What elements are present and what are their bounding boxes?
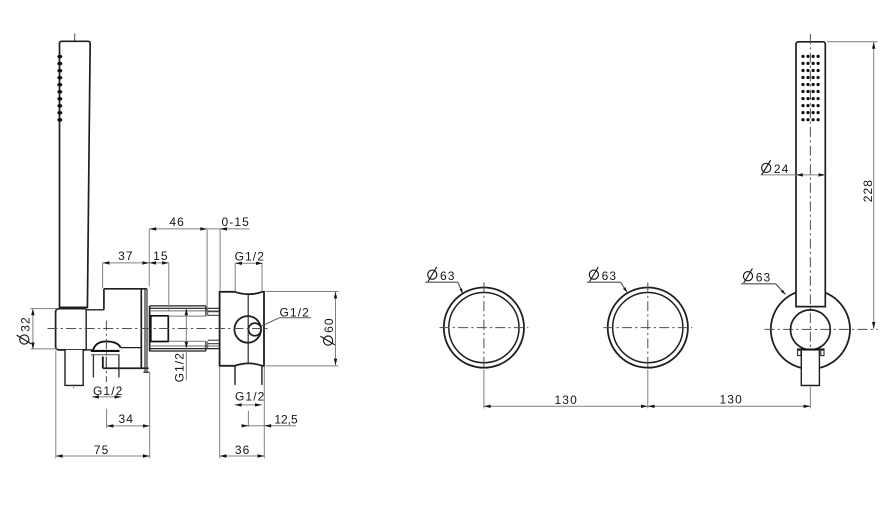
- svg-text:36: 36: [235, 443, 251, 457]
- svg-text:0-15: 0-15: [221, 215, 249, 229]
- side outlet inner circle G1/2: [249, 323, 262, 336]
- svg-text:24: 24: [774, 162, 790, 176]
- svg-text:32: 32: [18, 316, 32, 332]
- thread tick lines at wall body: [208, 311, 219, 313]
- label Ø32: [17, 316, 33, 344]
- svg-text:60: 60: [322, 317, 336, 333]
- back plate bottom lip: [143, 371, 149, 373]
- spray nozzle dots (side view): [57, 55, 62, 59]
- svg-text:63: 63: [756, 270, 772, 284]
- holder rosette Ø63 side view: [103, 289, 149, 368]
- extension line x=207: [206, 229, 208, 311]
- outlet bore step left: [102, 357, 104, 369]
- dimension 46: [149, 228, 207, 230]
- rosette circle 1 outer Ø63: [444, 288, 524, 368]
- holder neck left edge: [85, 309, 87, 350]
- extension to dim line: [809, 387, 811, 408]
- svg-text:46: 46: [169, 215, 185, 229]
- supply pipe below body right: [261, 366, 263, 385]
- pipe step inner top: [207, 308, 209, 316]
- circle 2 vertical centerline: [647, 283, 649, 372]
- hose tube (front view): [801, 351, 819, 386]
- holder hook hump: [93, 341, 121, 350]
- circle 2 extension to dim: [647, 371, 649, 408]
- extension line x=168.8: [168, 263, 170, 311]
- svg-text:12,5: 12,5: [274, 412, 298, 426]
- spray nozzle dot grid (front view): [801, 55, 804, 58]
- svg-text:130: 130: [555, 393, 578, 407]
- holder clip hooks: [798, 348, 801, 355]
- svg-text:G1/2: G1/2: [235, 389, 265, 403]
- outlet nipple left edge: [92, 355, 94, 378]
- svg-text:34: 34: [119, 412, 135, 426]
- pipe step outer top: [205, 306, 207, 316]
- pipe step inner bottom: [207, 341, 209, 348]
- svg-text:G1/2: G1/2: [173, 352, 187, 382]
- svg-text:G1/2: G1/2: [235, 250, 265, 264]
- svg-text:75: 75: [94, 443, 110, 457]
- supply pipe below body left: [234, 366, 236, 385]
- in-wall valve body Ø60: [220, 292, 264, 366]
- rosette circle 1 inner: [449, 293, 519, 363]
- dimension 36: [220, 455, 265, 457]
- holder neck bottom edge left: [86, 349, 93, 351]
- holder ball joint circle: [791, 310, 831, 350]
- hand shower handle (front view): [796, 42, 825, 307]
- pipe mating face: [149, 306, 151, 351]
- label Ø24: [762, 160, 790, 176]
- label Ø63 circle 3: [741, 283, 776, 285]
- back plate line 1: [144, 289, 146, 373]
- label Ø60: [320, 317, 336, 345]
- holder neck top edge: [86, 309, 104, 311]
- hand shower handle centerline (side view): [74, 34, 75, 389]
- horizontal centerline left view: [48, 328, 270, 330]
- dimension 34: [107, 425, 150, 427]
- rosette circle 2 outer Ø63: [608, 288, 688, 368]
- dimension 0-15: [207, 228, 249, 230]
- extension line x=149.2: [148, 229, 150, 286]
- dimension 12,5: [242, 425, 296, 427]
- circle 2 horizontal centerline: [603, 327, 692, 329]
- outlet bore step right: [105, 357, 107, 369]
- circle 1 horizontal centerline: [440, 327, 529, 329]
- dimension Ø32: [32, 309, 34, 350]
- outlet clip thick line: [91, 350, 120, 352]
- svg-text:15: 15: [153, 249, 169, 263]
- dimension 130 (circle1-circle2): [484, 405, 811, 407]
- outlet nipple right edge: [118, 355, 120, 378]
- valve body front face line: [247, 295, 249, 364]
- side outlet port circle: [234, 316, 261, 343]
- extension line x=102.6: [102, 263, 104, 288]
- holder cup Ø32: [56, 309, 87, 350]
- circle 3 horizontal centerline: [765, 328, 878, 330]
- pipe hex nut: [151, 316, 169, 342]
- svg-text:63: 63: [602, 269, 618, 283]
- label Ø63 circle 1: [425, 281, 458, 283]
- outlet clip thin line: [91, 354, 120, 356]
- circle 1 vertical centerline: [483, 283, 485, 372]
- holder body bottom edge right: [121, 347, 142, 349]
- svg-text:63: 63: [440, 269, 456, 283]
- pipe bore line bottom: [168, 340, 206, 342]
- rosette circle 2 inner: [613, 293, 683, 363]
- hand shower vertical centerline: [809, 34, 811, 387]
- holder rosette circle 3 Ø63: [771, 290, 850, 369]
- back plate line 2: [146, 289, 148, 373]
- dimension 75: [56, 455, 150, 457]
- dimension 228 vertical: [873, 42, 875, 329]
- svg-text:130: 130: [720, 392, 743, 406]
- dimension 37: [103, 262, 169, 264]
- hand shower handle (side view): [60, 41, 91, 307]
- label Ø63 circle 2: [587, 281, 621, 283]
- bottom outlet centerline: [105, 321, 107, 383]
- pipe bore line top: [168, 315, 206, 317]
- pipe step outer bottom: [205, 341, 207, 351]
- dimension Ø60: [335, 292, 337, 366]
- dimension Ø24: [761, 174, 826, 176]
- dimension G1/2 pipe thread vertical: [185, 308, 187, 380]
- holder clip bar: [797, 349, 824, 351]
- svg-text:37: 37: [118, 249, 134, 263]
- circle 1 extension to dim: [483, 371, 485, 408]
- hose connector tube: [65, 350, 83, 386]
- svg-text:228: 228: [861, 179, 875, 202]
- extension line x=220: [219, 229, 221, 291]
- threaded connection pipe G1/2: [150, 305, 206, 307]
